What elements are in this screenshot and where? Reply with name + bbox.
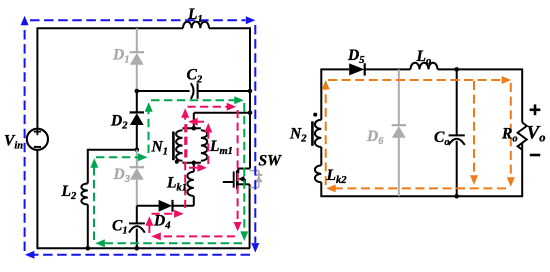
svg-text:SW: SW [259,153,283,170]
